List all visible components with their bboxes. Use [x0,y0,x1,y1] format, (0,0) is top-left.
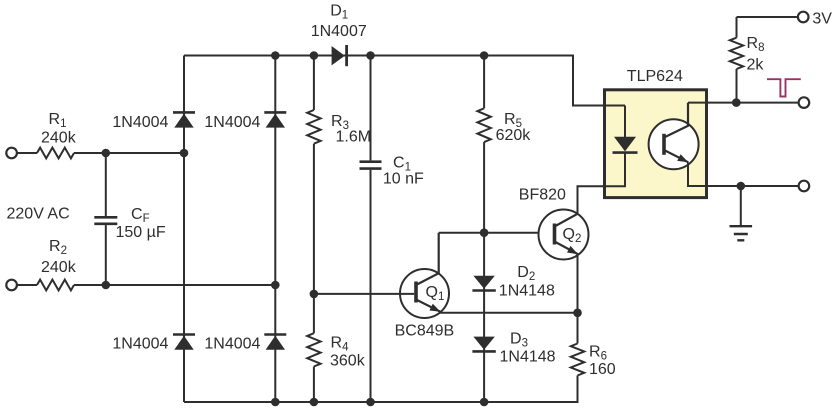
resistor R6 [571,344,584,376]
wire 3V to R8 [737,16,798,18]
wire R5 column top segment [483,56,485,109]
node top rail / R3 [310,51,319,60]
resistor R1 [37,148,74,159]
svg-text:240k: 240k [41,129,77,146]
svg-text:R6: R6 [589,344,607,363]
wire Q1 base line [314,293,414,295]
wire C1 column bottom segment [370,170,372,402]
transistor Q1 collector [416,233,439,285]
wire phototransistor emitter output [688,163,799,187]
svg-text:240k: 240k [41,259,77,276]
capacitor C1 [360,162,382,169]
svg-text:1N4148: 1N4148 [499,282,555,299]
diode D1 1N4007 [332,46,345,65]
wire R8 bottom [736,69,738,103]
node bottom rail / R4 [310,398,319,407]
node R2 / CF [102,281,111,290]
wire R2 to bridge [74,284,275,286]
svg-text:160: 160 [589,361,616,378]
svg-text:CF: CF [131,206,150,225]
wire CF column bottom [105,225,107,285]
wire input 2 to R2 [17,284,37,286]
svg-text:1N4148: 1N4148 [500,349,556,366]
node bottom rail / C1 [366,398,375,407]
wire emitter line Q1 to R6 node [439,312,578,314]
svg-text:360k: 360k [330,353,366,370]
node bottom rail / bridge col 2 [271,398,280,407]
node R2 / bridge col 2 [271,281,280,290]
node top rail / bridge col 2 [271,51,280,60]
terminal output high [799,97,810,108]
phototransistor base bar [662,134,666,155]
diode D3 1N4148 [473,337,494,350]
transistor Q2 base bar [553,224,557,245]
wire R3-R4 column middle segment [313,144,315,334]
diode bridge 1N4004 bottom-left [173,333,195,336]
transistor Q1 emitter [416,300,441,312]
ground symbol [730,226,753,240]
node Q1 collector / R5 / D2 / Q2 base [480,228,489,237]
resistor R5 [477,108,490,142]
svg-text:1N4004: 1N4004 [204,114,260,131]
svg-text:1.6M: 1.6M [336,129,372,146]
node R1 / bridge col 1 [180,149,189,158]
diode bridge 1N4004 top-left [173,111,195,114]
resistor R8 [730,38,743,69]
svg-text:1N4004: 1N4004 [112,114,168,131]
pulse waveform symbol [767,79,801,96]
phototransistor inside optocoupler circle [649,119,699,169]
svg-text:R8: R8 [747,35,765,54]
wire R8 top [736,17,738,38]
wire ground stem [740,186,742,226]
diode bridge 1N4004 bottom-right [264,333,286,336]
svg-text:2k: 2k [747,57,765,74]
terminal output low [799,181,810,192]
node R8 / output [732,98,741,107]
wire CF column top [105,153,107,216]
svg-text:R2: R2 [49,238,67,257]
diode bridge 1N4004 top-right [264,111,286,114]
wire LED anode [624,106,626,138]
wire R6 bottom [577,376,579,404]
wire R3-R4 column bottom segment [313,367,315,403]
transistor Q2 emitter [555,242,579,255]
node top rail / R5 [480,51,489,60]
svg-text:1N4004: 1N4004 [204,336,260,353]
terminal input 2 [6,280,17,291]
wire input 1 to R1 [17,152,37,154]
svg-text:1N4007: 1N4007 [311,23,367,40]
svg-text:220V AC: 220V AC [7,205,70,222]
svg-text:BF820: BF820 [519,187,566,204]
wire R1 to bridge [74,152,184,154]
wire C1 column top segment [370,56,372,161]
resistor R3 [307,110,320,144]
resistor R4 [307,333,320,366]
svg-text:D1: D1 [330,2,348,21]
optocoupler U1 TLP624 body [605,90,707,198]
node R3-R4 / Q1 base [310,290,319,299]
node bottom rail / D3 [480,398,489,407]
node ground / output [737,182,746,191]
wire bridge column 2 [274,56,276,403]
transistor Q2 circle [539,210,589,260]
wire Q1 collector to Q2 base [439,232,553,234]
wire bottom rail [184,401,578,403]
transistor Q1 base bar [414,282,418,303]
wire R3-R4 column top segment [313,56,315,111]
wire bridge column 1 (left) [183,56,185,403]
wire top rail [184,55,573,57]
diode D2 1N4148 [473,276,494,289]
svg-text:3V: 3V [812,10,832,27]
node top rail / C1 [366,51,375,60]
resistor R2 [37,280,74,291]
node Q1 emitter / Q2 emitter / R6 [573,309,582,318]
svg-text:1N4004: 1N4004 [112,336,168,353]
svg-text:R4: R4 [331,335,350,354]
phototransistor emitter [664,150,688,162]
terminal input 1 [6,148,17,159]
transistor Q2 collector [555,214,578,227]
LED D4 inside optocoupler [614,137,636,152]
svg-text:R1: R1 [49,111,67,130]
wire LED cathode to Q2 collector [578,153,626,214]
terminal 3V supply [798,12,809,23]
wire Q2 emitter down [577,255,579,313]
svg-text:150 µF: 150 µF [116,224,166,241]
node R1 / CF [102,149,111,158]
phototransistor collector [664,103,688,138]
svg-text:TLP624: TLP624 [627,68,683,85]
wire R6 top [577,313,579,344]
svg-text:D2: D2 [517,264,535,283]
wire top rail to LED anode [573,55,625,106]
wire phototransistor collector output [688,102,799,104]
svg-text:BC849B: BC849B [395,323,455,340]
svg-text:10 nF: 10 nF [383,170,424,187]
capacitor CF [94,217,117,224]
svg-text:620k: 620k [496,127,532,144]
wire R5-D2-D3 column [483,142,485,402]
svg-text:D3: D3 [510,331,528,350]
transistor Q1 circle [400,269,449,318]
